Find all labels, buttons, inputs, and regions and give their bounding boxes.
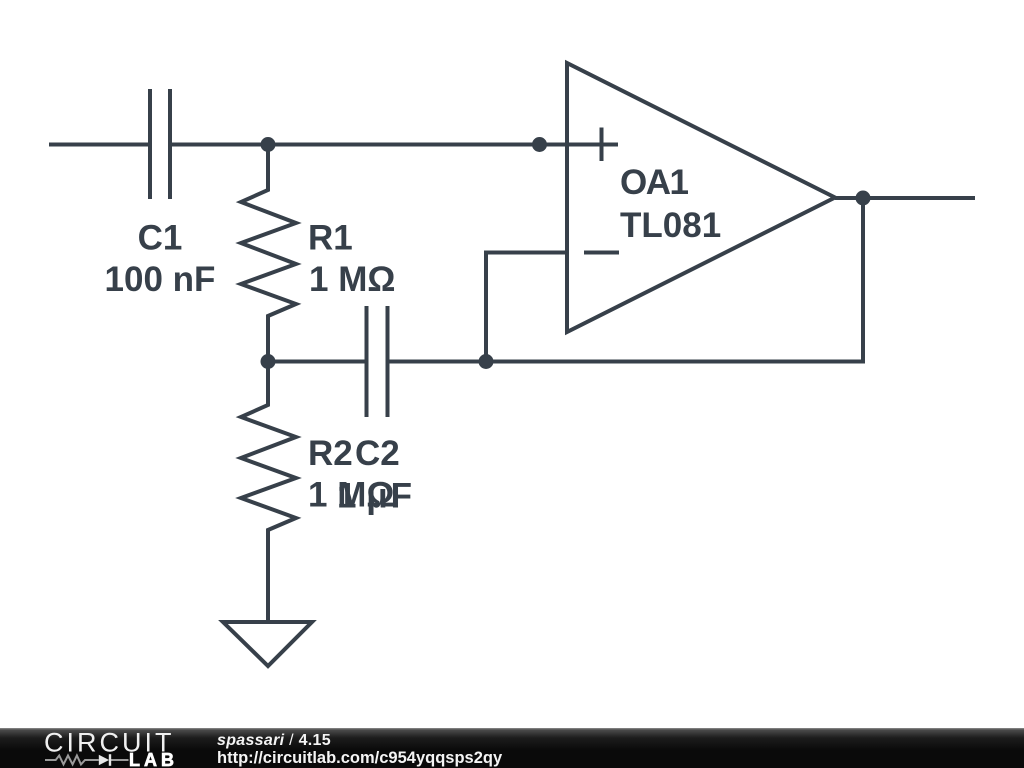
svg-text:OA1: OA1 (620, 163, 689, 202)
svg-text:C2: C2 (355, 434, 400, 473)
svg-text:R1: R1 (308, 219, 353, 258)
svg-text:C1: C1 (138, 219, 183, 258)
svg-text:spassari / 4.15: spassari / 4.15 (217, 732, 331, 749)
svg-text:http://circuitlab.com/c954yqqs: http://circuitlab.com/c954yqqsps2qy (217, 749, 503, 767)
svg-text:LAB: LAB (129, 750, 178, 768)
svg-text:100 nF: 100 nF (105, 260, 216, 299)
svg-text:1 μF: 1 μF (337, 477, 412, 516)
svg-text:R2: R2 (308, 434, 353, 473)
svg-text:1 MΩ: 1 MΩ (309, 260, 395, 299)
svg-text:TL081: TL081 (620, 206, 721, 245)
